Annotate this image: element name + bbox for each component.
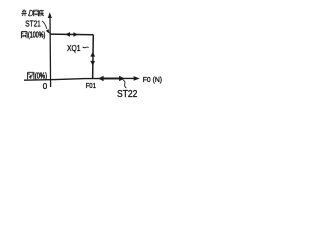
- svg-text:XQ1: XQ1: [67, 44, 81, 53]
- svg-text:0: 0: [43, 82, 48, 91]
- svg-text:F0 (N): F0 (N): [143, 77, 162, 84]
- svg-text:(0%): (0%): [35, 72, 47, 81]
- svg-text:F01: F01: [86, 83, 96, 90]
- svg-text:ST21: ST21: [25, 19, 41, 29]
- svg-text:ST22: ST22: [117, 89, 138, 100]
- svg-text:(100%): (100%): [28, 31, 46, 40]
